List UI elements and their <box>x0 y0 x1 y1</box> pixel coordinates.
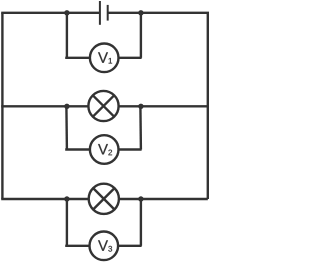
wire bottom row <box>1 198 208 200</box>
label V1 <box>98 52 112 63</box>
node top-left junction <box>64 10 69 15</box>
lamp L2 <box>89 184 119 214</box>
wire outer right edge <box>207 13 209 199</box>
wire V3 branch horizontal <box>65 245 141 247</box>
wire outer left edge <box>1 13 3 199</box>
node bottom-left junction <box>64 196 69 201</box>
wire V1 branch right vertical <box>140 13 142 58</box>
voltmeter V2 <box>90 135 119 164</box>
lamp L1 <box>88 91 118 121</box>
battery B1 <box>100 1 108 25</box>
node middle-left junction <box>64 104 69 109</box>
wire V1 branch horizontal <box>65 57 141 59</box>
voltmeter V3 <box>90 232 119 261</box>
wire top left segment <box>1 12 100 14</box>
node middle-right junction <box>138 104 143 109</box>
label V2 <box>98 144 112 155</box>
wire V2 branch right vertical <box>139 106 142 149</box>
wire V3 branch left vertical <box>66 199 68 246</box>
voltmeter V1 <box>90 44 119 73</box>
wire top right segment <box>108 12 209 14</box>
label V3 <box>98 240 112 251</box>
node bottom-right junction <box>138 196 143 201</box>
node top-right junction <box>138 10 143 15</box>
wire V2 branch horizontal <box>65 148 141 150</box>
wire V2 branch left vertical <box>65 106 68 149</box>
wire V3 branch right vertical <box>140 199 142 246</box>
wire V1 branch left vertical <box>66 13 68 58</box>
wire middle row <box>1 105 208 107</box>
